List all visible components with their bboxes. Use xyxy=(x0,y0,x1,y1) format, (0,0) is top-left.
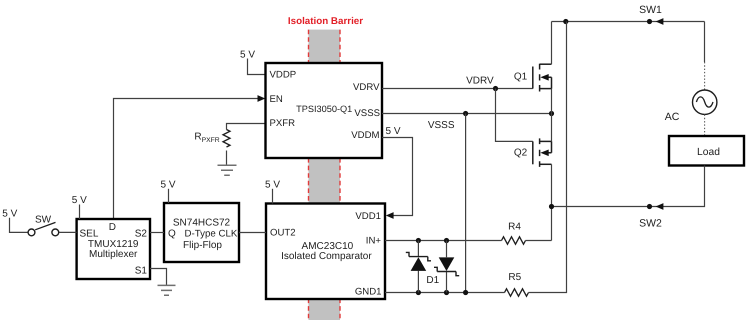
transistor Q1 (NMOS) xyxy=(533,64,552,92)
diode D1a (schottky, pointing up) xyxy=(417,241,419,293)
ground below S1 xyxy=(158,285,176,295)
svg-text:VDDM: VDDM xyxy=(351,130,379,141)
chip U2 AMC23C10 isolated comparator xyxy=(266,204,385,300)
chip U1 TPSI3050-Q1 xyxy=(266,63,383,158)
svg-text:D1: D1 xyxy=(426,275,439,286)
arrow on SW2 wire xyxy=(656,203,664,210)
svg-text:VDDP: VDDP xyxy=(270,70,297,81)
svg-text:5 V: 5 V xyxy=(160,179,175,190)
junction GND1 left diode xyxy=(416,290,421,295)
wire: CLK to OUT2 xyxy=(239,232,266,234)
svg-text:D: D xyxy=(109,222,116,233)
wire: 5V tick into AMC23C10 top xyxy=(272,189,274,204)
svg-text:Q2: Q2 xyxy=(514,147,528,158)
wire: VDRV net from TPSI to Q1 gate xyxy=(382,88,533,90)
svg-text:SW2: SW2 xyxy=(639,217,662,229)
svg-text:IN+: IN+ xyxy=(366,235,382,246)
svg-text:Isolation Barrier: Isolation Barrier xyxy=(288,16,363,27)
svg-text:5 V: 5 V xyxy=(385,126,400,137)
resistor RPXFR xyxy=(223,130,230,148)
svg-text:Multiplexer: Multiplexer xyxy=(89,249,138,260)
svg-text:PXFR: PXFR xyxy=(202,137,220,144)
diode D1b (schottky, pointing down) xyxy=(446,241,448,293)
junction VSSS to GND1 branch xyxy=(463,111,468,116)
AC source xyxy=(693,90,717,114)
wire: VDDM 5V to VDD1 xyxy=(382,138,413,216)
svg-text:Q1: Q1 xyxy=(514,71,528,82)
arrow into VDD1 pin xyxy=(386,212,394,219)
svg-text:SW: SW xyxy=(35,214,52,225)
junction Q2 drain to SW2 xyxy=(549,204,554,209)
svg-text:EN: EN xyxy=(270,94,283,105)
svg-text:SW1: SW1 xyxy=(639,4,662,16)
svg-text:VDRV: VDRV xyxy=(353,82,380,93)
svg-text:GND1: GND1 xyxy=(355,286,382,297)
svg-text:SEL: SEL xyxy=(80,229,99,240)
svg-text:S2: S2 xyxy=(135,229,148,240)
svg-text:OUT2: OUT2 xyxy=(270,228,296,239)
isolation barrier gray bar middle segment xyxy=(309,158,341,204)
load box xyxy=(669,136,744,166)
wire: load to SW2 xyxy=(552,166,705,207)
chip U4 TMUX1219 multiplexer xyxy=(77,219,150,279)
resistor R4 xyxy=(502,237,526,244)
wire: 5V tick to VDDP xyxy=(248,59,265,75)
svg-text:5 V: 5 V xyxy=(2,208,17,219)
ground below RPXFR xyxy=(218,165,237,175)
svg-text:AC: AC xyxy=(665,111,680,123)
chip U3 SN74HCS72 flip-flop xyxy=(164,203,239,262)
resistor R5 xyxy=(505,289,529,296)
node SW2 junction dot xyxy=(647,204,652,209)
svg-text:Q: Q xyxy=(168,229,176,240)
switch SW blade xyxy=(35,222,55,229)
svg-text:Load: Load xyxy=(697,147,720,158)
junction R5 riser on SW1 rail xyxy=(563,19,568,24)
junction IN+ right diode xyxy=(444,238,449,243)
svg-text:Flip-Flop: Flip-Flop xyxy=(183,240,222,251)
switch SW contact right xyxy=(52,229,59,236)
isolation barrier gray bar top segment xyxy=(309,30,341,63)
svg-text:5 V: 5 V xyxy=(72,195,87,206)
wire: R5 up to SW1 rail xyxy=(529,22,567,293)
switch SW contact left xyxy=(28,229,35,236)
wire: S1 to ground xyxy=(150,269,167,286)
wire: IN+ line from AMC to R4 xyxy=(385,240,502,242)
wire: dashed segment below AC source xyxy=(704,115,706,137)
svg-text:5 V: 5 V xyxy=(265,179,280,190)
isolation barrier red dashed boundary right xyxy=(339,30,341,320)
svg-text:PXFR: PXFR xyxy=(270,118,296,129)
svg-text:VSSS: VSSS xyxy=(428,120,455,131)
wire: Q2 source up to VSSS node xyxy=(551,114,553,142)
wire: 5V to switch SW xyxy=(10,218,28,233)
svg-text:R5: R5 xyxy=(508,272,521,283)
wire: S2 to Q xyxy=(150,232,164,234)
wire: 5V tick into TMUX top xyxy=(79,205,81,220)
svg-text:R: R xyxy=(194,132,201,143)
wire: VDRV branch down to Q2 gate xyxy=(496,89,533,142)
wire: 5V tick into SN74HCS72 top xyxy=(168,189,170,203)
svg-text:VSSS: VSSS xyxy=(354,108,380,119)
svg-text:5 V: 5 V xyxy=(240,50,255,61)
wire: AC branch solid top xyxy=(704,22,706,63)
svg-text:S1: S1 xyxy=(135,265,148,276)
junction GND1 VSSS branch xyxy=(463,290,468,295)
arrow into EN pin xyxy=(258,95,266,102)
svg-text:VDRV: VDRV xyxy=(466,76,494,87)
wire: SW1 top rail xyxy=(552,21,705,23)
junction GND1 right diode xyxy=(444,290,449,295)
wire: PXFR to resistor xyxy=(227,124,265,130)
wire: Q1 drain to SW1 rail xyxy=(551,22,553,65)
svg-text:SN74HCS72: SN74HCS72 xyxy=(173,218,231,229)
junction VDRV branch xyxy=(493,86,498,91)
isolation barrier red dashed boundary left xyxy=(308,30,310,320)
wire: resistor to ground xyxy=(226,151,228,166)
wire: GND1 line from AMC to R5 xyxy=(385,292,505,294)
wire: R4 to Q2 drain branch xyxy=(526,240,552,242)
isolation barrier gray bar bottom segment xyxy=(309,299,341,321)
svg-text:D-Type CLK: D-Type CLK xyxy=(185,228,238,239)
node SW1 junction dot xyxy=(647,19,652,24)
svg-text:R4: R4 xyxy=(508,222,521,233)
wire: VSSS down to GND1 line xyxy=(465,114,467,293)
wire: D to EN (vertical from TMUX D pin up, then right) xyxy=(114,99,258,219)
svg-text:TPSI3050-Q1: TPSI3050-Q1 xyxy=(296,104,352,114)
wire: Q1 source to VSSS node xyxy=(551,89,553,114)
wire: dashed segment above AC source xyxy=(704,62,706,90)
arrow on SW1 rail xyxy=(656,18,664,25)
svg-text:VDD1: VDD1 xyxy=(355,211,381,222)
wire: Q2 drain down to SW2 and R4 xyxy=(551,164,553,240)
svg-text:Isolated Comparator: Isolated Comparator xyxy=(281,251,372,262)
wire: switch to SEL xyxy=(59,231,77,233)
wire: VSSS net from TPSI to common source xyxy=(382,113,552,115)
junction IN+ left diode xyxy=(416,238,421,243)
transistor Q2 (NMOS mirrored) xyxy=(533,138,552,167)
junction at common source node xyxy=(549,111,554,116)
